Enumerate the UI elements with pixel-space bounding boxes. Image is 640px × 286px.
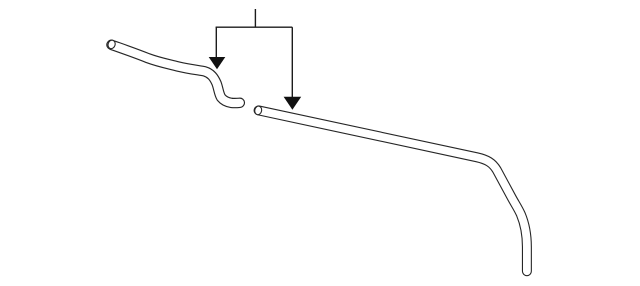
left arrowhead — [209, 57, 226, 69]
callout leader stub — [254, 9, 256, 27]
hose 1 (left tube) inner white — [112, 45, 240, 103]
right arrow shaft — [291, 27, 293, 98]
right arrowhead — [284, 97, 302, 110]
hose 2 open end cap ellipse — [254, 105, 262, 115]
hose 2 (right tube) outer outline — [259, 110, 527, 271]
hose 1 (left tube) outer outline — [112, 45, 240, 103]
hose 1 open end cap ellipse — [107, 39, 116, 49]
hose 2 (right tube) inner white — [259, 110, 527, 271]
callout horizontal bracket — [216, 26, 293, 28]
left arrow shaft — [215, 27, 217, 58]
